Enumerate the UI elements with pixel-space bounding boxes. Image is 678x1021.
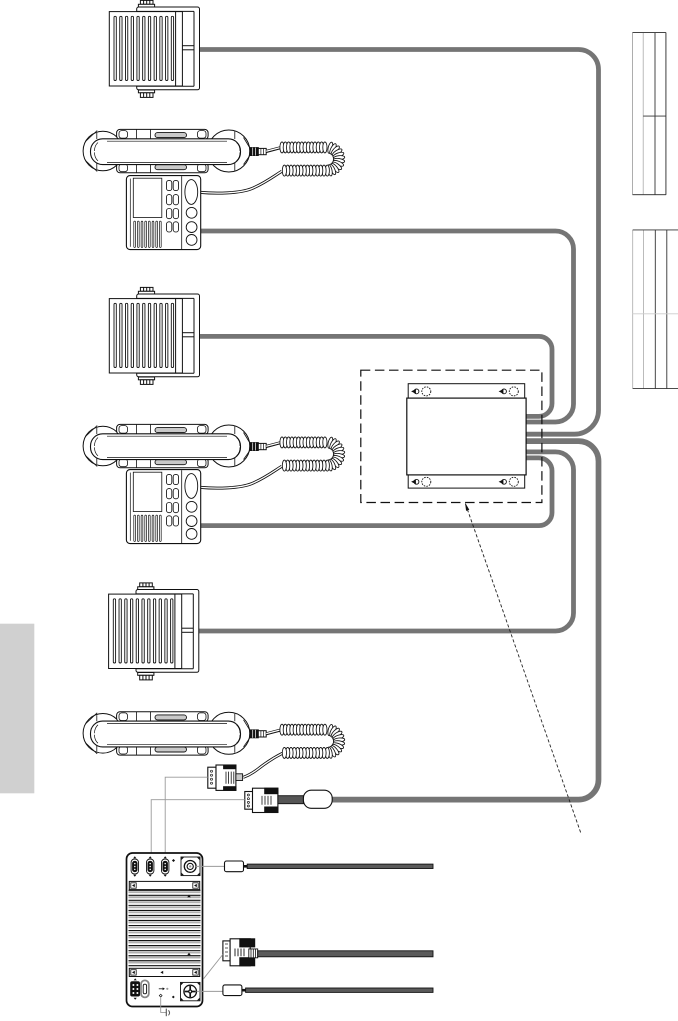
- junction box dashed outline: [361, 370, 542, 502]
- wire handset H2 coiled-cord tail to radio U2: [201, 466, 282, 488]
- wire thin lead, round connector to plug (cable 3): [197, 990, 223, 992]
- radio control unit U2: [126, 470, 200, 544]
- parts table 2 (right, cropped): [633, 230, 678, 389]
- radio control unit U1: [126, 176, 200, 250]
- transceiver accessory oval connector (bottom panel): [141, 980, 149, 997]
- leader arrow line pointing to junction box: [466, 504, 581, 833]
- left margin gray bar: [0, 624, 34, 794]
- transceiver GPS/data round connector (bottom panel): [181, 982, 201, 1000]
- transceiver mini D-sub connectors (top panel): [131, 856, 138, 877]
- parts table 1 (top right, cropped): [633, 33, 666, 195]
- speaker SP3 (external loudspeaker, bottom): [109, 583, 199, 680]
- DB9 connector J3 on cable 2: [223, 939, 258, 966]
- transceiver power connector (bottom panel): [131, 978, 140, 999]
- transceiver fins: [129, 890, 201, 965]
- wire speaker SP1 to junction box (via right trunk): [196, 50, 599, 435]
- transceiver main unit body: [127, 853, 203, 1007]
- wire handset H3 coiled-cord tail to DB9 connector J1: [243, 753, 282, 777]
- ground wire and symbol: [161, 997, 166, 1012]
- transceiver antenna connector (top panel): [181, 857, 200, 876]
- arrow + dot marks: [159, 987, 175, 998]
- ferrite bead on trunk cable: [303, 790, 332, 808]
- antenna cable 1 (dark bar): [247, 864, 433, 868]
- DB9 connector J2 with trunk cable (lower): [245, 788, 278, 812]
- dark cable segment J2 to ferrite: [278, 796, 304, 804]
- speaker SP2 (external loudspeaker, middle): [109, 287, 199, 384]
- plug of cable 1: [225, 861, 244, 872]
- wire leader from transceiver D-sub 2 to J2: [151, 800, 245, 853]
- wire transceiver trunk cable to junction box: [332, 441, 599, 799]
- cable 3 (dark bar): [246, 988, 433, 992]
- data cable 2 (dark bar): [258, 951, 433, 957]
- handset H1 (top station): [83, 129, 345, 176]
- wire thin lead, antenna connector to plug (cable 1): [196, 865, 225, 867]
- wire handset H1 coiled-cord tail to radio U1: [201, 171, 282, 193]
- handset H3 (bottom station): [83, 712, 345, 759]
- wire speaker SP3 to junction box: [196, 452, 574, 631]
- junction box screw holes: [411, 387, 518, 486]
- DB9 connector J1 (handset adapter, upper): [208, 765, 243, 790]
- wire radio U2 to junction box: [200, 458, 552, 526]
- plug of cable 3: [223, 985, 242, 996]
- junction box J-BOX: [407, 384, 526, 488]
- handset H2 (middle station): [83, 424, 345, 471]
- small diamond mark: [172, 859, 175, 862]
- wire leader from transceiver to J3: [204, 955, 223, 979]
- wire leader from transceiver D-sub 3 to J1: [165, 777, 208, 853]
- wire speaker SP2 to junction box: [196, 336, 552, 416]
- transceiver divider bands: [129, 881, 199, 976]
- wire radio U1 to junction box: [200, 231, 574, 422]
- speaker SP1 (external loudspeaker, top): [109, 0, 199, 97]
